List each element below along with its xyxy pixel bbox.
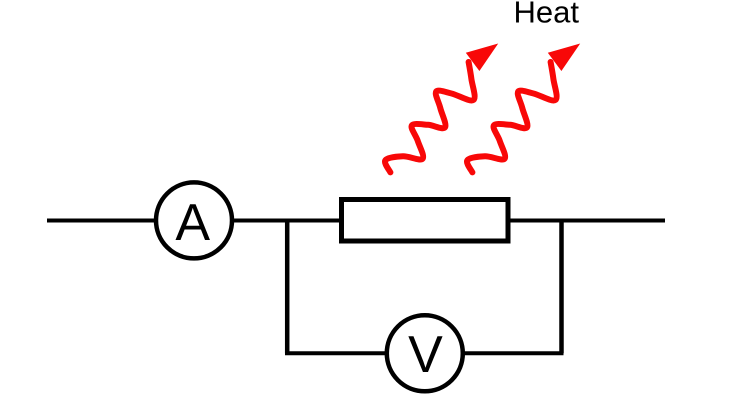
svg-text:Heat: Heat bbox=[514, 0, 580, 30]
wire: left branch vertical bbox=[285, 219, 290, 354]
wire: main horizontal bbox=[47, 219, 665, 223]
wire: bottom horizontal bbox=[285, 351, 564, 355]
heat wavy arrow left bbox=[385, 44, 498, 173]
heat wavy arrow right bbox=[467, 44, 580, 173]
svg-text:A: A bbox=[175, 194, 210, 252]
resistor heating element R bbox=[342, 200, 509, 242]
svg-text:V: V bbox=[408, 326, 443, 384]
wire: right branch vertical bbox=[559, 219, 564, 354]
ammeter A bbox=[156, 182, 232, 258]
voltmeter V bbox=[387, 315, 463, 391]
